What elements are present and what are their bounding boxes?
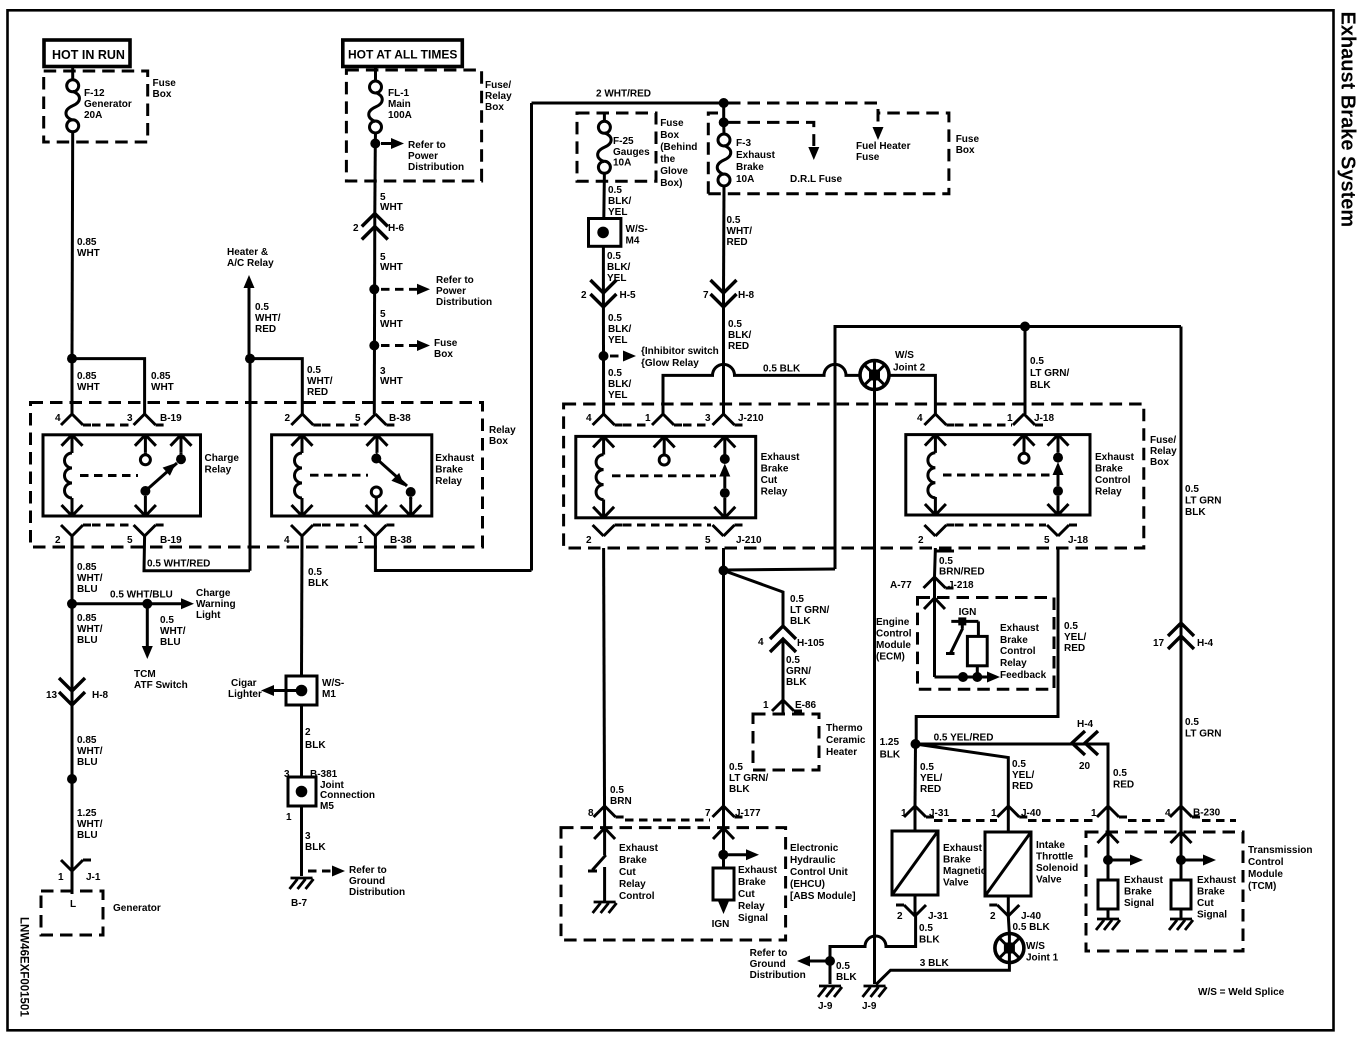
svg-text:20: 20 [1079,761,1091,772]
wire connector dashes top B-19 [92,424,132,427]
pin 5 B-38 top [355,413,411,425]
svg-text:Refer to: Refer to [408,140,446,151]
svg-text:2: 2 [55,535,61,546]
wire H-8 down to pin 3 J-210 [722,293,725,414]
svg-text:WHT/: WHT/ [307,376,333,387]
wire x835 to pin5 junction [724,569,836,570]
node junction D.R.L branch [719,117,729,127]
wire connector dashes bottom J-210 [623,524,711,527]
label Exhaust Brake Relay [435,453,475,487]
svg-text:7: 7 [703,290,709,301]
wire pin 1 J-31 to valve [914,806,917,831]
svg-text:Module: Module [876,640,911,651]
wire FL-1 junction down [373,144,377,214]
pin 4 J-18 top [917,413,954,425]
wire connector dashes top J-18 [955,424,1012,427]
svg-text:BLK: BLK [880,750,901,761]
svg-text:3: 3 [305,831,311,842]
svg-text:2: 2 [581,290,587,301]
svg-text:{Inhibitor switch: {Inhibitor switch [641,346,719,357]
svg-text:J-40: J-40 [1021,911,1041,922]
pin 1 J-210 top [645,413,682,425]
svg-text:2: 2 [990,911,996,922]
svg-text:LT GRN: LT GRN [1185,729,1221,740]
control relay closed contact [1048,435,1069,515]
svg-text:1: 1 [1007,413,1013,424]
wire pin 4 B-230 into box [1180,806,1183,832]
svg-text:F-12: F-12 [84,88,105,99]
svg-text:Fuse: Fuse [856,152,880,163]
svg-text:M4: M4 [626,236,640,247]
wire 2 WHT/RED down long vertical [530,103,533,571]
svg-text:Fuse/: Fuse/ [485,80,511,91]
svg-text:0.5: 0.5 [607,251,621,262]
wire F-3 stub [722,122,725,134]
svg-text:D.R.L Fuse: D.R.L Fuse [790,174,842,185]
svg-text:0.5 WHT/RED: 0.5 WHT/RED [147,559,210,570]
label Refer to Ground Distribution [750,948,806,981]
svg-text:0.5: 0.5 [608,185,622,196]
svg-text:FL-1: FL-1 [388,88,410,99]
svg-text:YEL/: YEL/ [920,773,942,784]
svg-text:J-218: J-218 [948,580,974,591]
svg-text:0.85: 0.85 [77,371,97,382]
svg-text:BLU: BLU [77,584,98,595]
joint connection M5 [288,777,316,806]
wire connector dashes J-31 J-40 [934,819,997,822]
label Fuse Box [153,78,177,100]
svg-text:Signal: Signal [1197,910,1227,921]
TCM cut signal ground [1169,919,1193,930]
svg-text:Charge: Charge [205,453,240,464]
weld splice W/S-M1 [286,676,317,705]
svg-text:J-18: J-18 [1068,535,1088,546]
charge relay fixed contact open [135,435,156,465]
svg-text:LNW46EXF001501: LNW46EXF001501 [18,917,30,1017]
svg-text:Cut: Cut [738,889,755,900]
wire stub to F-25 [603,113,606,122]
svg-text:RED: RED [728,341,749,352]
wire top right horizontal LT GRN/BLK [835,327,1181,570]
svg-text:H-4: H-4 [1197,638,1214,649]
label 0.85 WHT [77,237,100,259]
wire stub tail at box edge [935,550,955,553]
svg-text:RED: RED [920,784,941,795]
wire connector dashes J-40 TCM [1028,819,1097,822]
label 0.5 LT GRN [1185,717,1221,740]
HOT IN RUN box [44,40,130,67]
svg-text:2: 2 [285,413,291,424]
svg-text:2: 2 [353,223,359,234]
wire pin 1 TCM into box [1107,806,1110,832]
svg-text:(EHCU): (EHCU) [790,879,825,890]
svg-text:LT GRN: LT GRN [1185,496,1221,507]
label 0.5 LT GRN/BLK [729,762,768,795]
svg-text:0.5: 0.5 [790,594,804,605]
svg-text:Power: Power [436,286,466,297]
svg-text:Joint 1: Joint 1 [1026,953,1059,964]
svg-text:0.85: 0.85 [151,371,171,382]
svg-text:Box: Box [153,89,172,100]
svg-text:W/S-: W/S- [322,678,344,689]
svg-text:4: 4 [284,535,290,546]
svg-text:Control Unit: Control Unit [790,867,848,878]
label F-3 Exhaust Brake 10A [736,138,776,185]
exhaust brake magnetic valve [892,831,938,895]
label Exhaust Brake Signal [1124,875,1164,909]
node junction 2 WHT/RED at F-3 [719,98,729,108]
svg-text:Exhaust: Exhaust [738,865,778,876]
wire J-1 into generator [71,871,74,894]
svg-text:WHT: WHT [380,262,403,273]
svg-text:Gauges: Gauges [613,147,650,158]
svg-text:Control: Control [1000,646,1036,657]
wire pin 2 J-40 to joint 1 [1008,916,1009,934]
wire down to pin 4 [71,359,74,414]
svg-text:LT GRN/: LT GRN/ [729,773,768,784]
svg-text:0.5 YEL/RED: 0.5 YEL/RED [934,733,994,744]
thermo ceramic heater dashed box [753,714,819,770]
svg-text:2: 2 [918,535,924,546]
svg-text:Heater: Heater [826,747,857,758]
svg-text:(Behind: (Behind [660,142,697,153]
svg-text:J-1: J-1 [86,872,101,883]
EHCU IGN arrow [712,901,730,930]
svg-text:Fuse: Fuse [434,338,458,349]
pin 2 B-38 top [285,413,322,425]
wire A-77 into ECM [933,577,936,598]
svg-text:LT GRN/: LT GRN/ [1030,368,1069,379]
svg-text:IGN: IGN [712,919,730,930]
pin 5 J-210 bottom [705,525,762,546]
connector H-6 [353,214,405,240]
svg-text:Charge: Charge [196,588,231,599]
wire connector dashes bottom B-19 [92,524,132,527]
svg-text:Refer to: Refer to [349,865,387,876]
wire pin 1 B-38 to vertical riser [375,536,531,571]
svg-text:0.85: 0.85 [77,613,97,624]
svg-text:Magnetic: Magnetic [943,866,987,877]
svg-text:Ceramic: Ceramic [826,735,866,746]
svg-text:Exhaust Brake System: Exhaust Brake System [1337,12,1359,228]
label 0.5 BLK/YEL [607,251,631,284]
TCM brake signal arrow [1098,832,1119,880]
connector H-4 17 [1153,623,1214,649]
label W/S-M1 [322,678,344,700]
svg-text:Relay: Relay [435,476,462,487]
svg-text:WHT: WHT [151,382,174,393]
label Refer to Power Distribution [408,140,464,173]
svg-text:F-3: F-3 [736,138,751,149]
svg-text:BRN: BRN [610,796,632,807]
arrow charge warning light [147,598,194,609]
pin 5 B-19 bottom [127,525,182,546]
svg-text:2: 2 [897,911,903,922]
svg-text:GRN/: GRN/ [786,666,811,677]
node junction 0.5 YEL/RED [911,739,921,749]
pin 4 B-19 [55,413,91,425]
svg-text:2: 2 [305,727,311,738]
ECM input arrow [924,598,945,677]
pin 5 J-18 bottom [1044,525,1088,546]
svg-text:Electronic: Electronic [790,843,839,854]
svg-text:Ground: Ground [750,959,786,970]
svg-text:0.5: 0.5 [919,923,933,934]
label Thermo Ceramic Heater [826,723,866,758]
label Exhaust Brake Cut Relay Signal [738,865,778,924]
svg-text:13: 13 [46,690,58,701]
arrow TCM brake signal right [1108,855,1143,866]
wire pin 2 J-18 down to A-77 [933,548,937,577]
pin 2 J-31 [896,895,948,922]
svg-text:Control: Control [1095,475,1131,486]
svg-text:Brake: Brake [761,464,789,475]
wire pin 1 J-40 to valve [1007,806,1010,832]
svg-text:20A: 20A [84,110,102,121]
svg-text:J-210: J-210 [736,535,762,546]
svg-text:5: 5 [705,535,711,546]
svg-text:WHT/: WHT/ [77,573,103,584]
svg-text:WHT/: WHT/ [77,746,103,757]
label 0.5 BLK/YEL [608,185,632,218]
label 0.5 BLK [308,567,329,589]
svg-text:Relay: Relay [738,901,765,912]
EHCU relay control arrow [594,828,615,855]
svg-text:3: 3 [127,413,133,424]
svg-text:J-40: J-40 [1021,808,1041,819]
svg-text:2 WHT/RED: 2 WHT/RED [596,89,651,100]
TCM dashed box [1086,832,1243,951]
label 0.5 BLK [919,923,940,946]
connector H-4 20 [1072,719,1098,772]
svg-text:WHT/: WHT/ [77,624,103,635]
svg-text:0.5: 0.5 [729,762,743,773]
connector H-8 13 [46,678,109,705]
svg-text:1: 1 [358,535,364,546]
svg-text:Exhaust: Exhaust [761,452,801,463]
svg-text:Exhaust: Exhaust [1000,623,1040,634]
svg-text:0.5: 0.5 [1185,484,1199,495]
arrow fuel heater fuse [873,127,884,140]
label 3 B-381 [284,769,338,780]
arrow EHCU signal right [724,849,760,860]
wire junction to H-4 and 0.5 RED [916,744,1109,806]
svg-text:WHT/: WHT/ [255,313,281,324]
label 0.5 LT GRN BLK [1185,484,1221,518]
dashed wire to D.R.L fuse [728,122,814,146]
wire F-25 to W/S-M4 [602,173,606,219]
relay exhaust brake cut relay box [576,436,756,517]
svg-text:BLK/: BLK/ [728,330,752,341]
wire F-3 to H-8 [722,185,726,294]
svg-text:Heater &: Heater & [227,247,268,258]
svg-text:10A: 10A [736,174,754,185]
svg-text:0.5: 0.5 [939,556,953,567]
svg-text:0.5: 0.5 [1185,717,1199,728]
svg-text:10A: 10A [613,158,631,169]
svg-text:Refer to: Refer to [750,948,788,959]
svg-text:0.5: 0.5 [786,655,800,666]
wire joint 1 to ground 3 BLK [876,963,1009,985]
wire pin 2 B-19 down to H-8 [71,604,74,691]
svg-text:Box: Box [1150,457,1169,468]
wire diagonal to H-105 [724,571,784,629]
wire branch right to pin 3 [72,359,145,414]
svg-text:BLK: BLK [919,935,940,946]
svg-text:BLK/: BLK/ [607,262,631,273]
svg-text:Box: Box [956,145,975,156]
svg-text:0.5: 0.5 [308,567,322,578]
svg-text:0.85: 0.85 [77,735,97,746]
svg-text:W/S: W/S [895,350,914,361]
label Exhaust Brake Cut Signal [1197,875,1237,921]
wire FL-1 to junction [374,133,377,144]
connector A-77 J-218 [890,577,974,591]
svg-text:Signal: Signal [738,913,768,924]
exhaust brake relay pivot contact [367,435,408,486]
svg-text:Brake: Brake [1197,887,1225,898]
label Fuse Box [434,338,458,360]
TCM brake signal resistor [1098,880,1118,909]
svg-text:Control: Control [619,891,655,902]
label 0.85 WHT/BLU [77,562,103,595]
label Joint Connection M5 [320,780,375,812]
dashed arrow refer to ground distribution [308,866,345,877]
svg-text:A-77: A-77 [890,580,912,591]
TCM cut signal resistor [1171,880,1191,909]
svg-text:0.5: 0.5 [160,615,174,626]
weld splice W/S-M4 [589,219,621,247]
svg-text:H-105: H-105 [797,638,825,649]
wire H-8 to J-1 [71,691,74,871]
svg-text:Feedback: Feedback [1000,670,1047,681]
svg-text:J-9: J-9 [862,1001,877,1012]
label 0.5 RED [1113,768,1134,791]
wire joint 2 down long [873,390,876,985]
svg-text:H-8: H-8 [738,290,755,301]
wire 2 WHT/RED horizontal [532,102,724,105]
label 2 BLK [305,727,326,751]
label 5 WHT [380,309,403,330]
svg-text:Distribution: Distribution [750,970,806,981]
label Refer to Power Distribution [436,275,492,308]
svg-text:Hydraulic: Hydraulic [790,855,836,866]
svg-text:F-25: F-25 [613,136,634,147]
dashed wire to fuel heater fuse [728,103,878,126]
relay exhaust brake control relay box [906,435,1090,515]
svg-text:Intake: Intake [1036,840,1065,851]
label W/S-M4 [626,224,648,247]
cut relay link dashed [612,474,716,477]
svg-text:Brake: Brake [1000,635,1028,646]
svg-text:BLU: BLU [77,635,98,646]
label 0.5 BLK [836,961,857,983]
svg-text:B-7: B-7 [291,898,308,909]
svg-text:Transmission: Transmission [1248,845,1312,856]
svg-text:Cut: Cut [1197,898,1214,909]
node junction pin 1 J-18 branch [1020,322,1030,332]
svg-text:Exhaust: Exhaust [1124,875,1164,886]
svg-text:Valve: Valve [1036,875,1062,886]
svg-text:0.5: 0.5 [1113,768,1127,779]
svg-text:3: 3 [705,413,711,424]
wire M5 to ground B-7 [300,806,303,876]
cut relay closed contact [714,436,735,517]
dashed arrow inhibitor switch [610,351,636,362]
svg-text:5: 5 [355,413,361,424]
pin 4 B-38 bottom [284,525,321,546]
node junction heater branch [245,354,255,364]
svg-text:0.5: 0.5 [728,319,742,330]
wire H-6 down [373,214,377,415]
svg-text:1: 1 [991,808,997,819]
wire connector dashes bottom J-18 [955,524,1046,527]
svg-text:J-31: J-31 [929,808,949,819]
svg-text:1: 1 [645,413,651,424]
label W/S Joint 1 [1026,941,1059,964]
svg-text:4: 4 [586,413,592,424]
label 0.5 BRN [610,785,632,807]
svg-text:BLK: BLK [1030,380,1051,391]
svg-text:[ABS Module]: [ABS Module] [790,891,856,902]
label Charge Warning Light [196,588,236,621]
wire junction down to 0.5 WHT/RED run [249,359,252,571]
fuse/relay box FL-1 dashed box [346,70,481,181]
label Fuse/Relay Box [1150,435,1177,468]
svg-text:Warning: Warning [196,599,236,610]
svg-text:5: 5 [1044,535,1050,546]
svg-text:Main: Main [388,99,411,110]
wire pin 2 J-210 down to EHCU pin 8 [604,548,605,828]
label Fuse Box [956,134,980,156]
arrow cigar lighter [261,685,302,696]
label 0.5 GRN/BLK [786,655,811,688]
svg-text:0.5: 0.5 [1030,356,1044,367]
svg-text:Control: Control [1248,857,1284,868]
dashed arrow refer to power distribution [381,284,430,295]
exhaust brake relay link dashed [310,474,368,477]
pin 4 J-210 top [586,413,623,425]
generator dashed box [41,891,103,935]
label Relay Box [489,425,516,447]
svg-text:Exhaust: Exhaust [1197,875,1237,886]
fuse F-3 [717,134,731,186]
svg-text:Refer to: Refer to [436,275,474,286]
pin 3 B-19 [127,413,182,425]
svg-text:YEL/: YEL/ [1012,770,1034,781]
svg-text:BLK: BLK [786,677,807,688]
svg-text:Box: Box [660,130,679,141]
label Exhaust Brake Cut Relay [761,452,801,498]
svg-text:J-210: J-210 [738,413,764,424]
svg-text:BLK: BLK [729,784,750,795]
svg-text:Cut: Cut [761,475,778,486]
label 0.5 WHT/RED [727,215,753,248]
svg-text:5: 5 [127,535,133,546]
svg-text:0.5: 0.5 [608,368,622,379]
svg-text:YEL: YEL [608,390,627,401]
svg-text:B-230: B-230 [1193,808,1221,819]
svg-text:(TCM): (TCM) [1248,881,1276,892]
svg-text:YEL: YEL [608,335,627,346]
TCM cut signal arrow [1171,832,1192,880]
svg-text:WHT: WHT [77,382,100,393]
svg-text:2: 2 [586,535,592,546]
svg-text:BLK: BLK [790,616,811,627]
svg-text:RED: RED [255,324,276,335]
svg-text:Lighter: Lighter [228,689,262,700]
wire 0.5 BLK with hops [663,364,860,414]
